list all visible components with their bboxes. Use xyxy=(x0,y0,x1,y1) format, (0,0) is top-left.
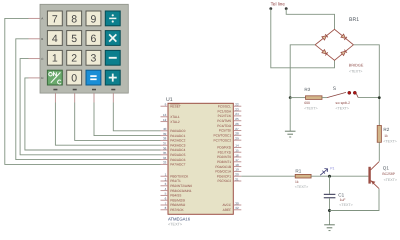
svg-text:PA4/ADC4: PA4/ADC4 xyxy=(170,148,185,152)
svg-text:PC5/TDI: PC5/TDI xyxy=(219,129,231,133)
wire R3 to switch xyxy=(322,97,327,99)
wire Q1 emitter to C1 bottom node xyxy=(330,189,380,211)
svg-text:18: 18 xyxy=(235,163,239,167)
svg-text:PC0/SCL: PC0/SCL xyxy=(218,104,232,108)
junction node at switch right xyxy=(378,96,381,99)
svg-text:PA0/ADC0: PA0/ADC0 xyxy=(170,129,185,133)
wire keypad column 3 to U1 PA1 xyxy=(94,103,161,136)
wire keypad row D to U1 PA4 xyxy=(25,78,161,150)
wire node down to ground xyxy=(289,98,291,131)
svg-text:19: 19 xyxy=(235,168,239,172)
svg-text:1uF: 1uF xyxy=(340,198,346,202)
keypad plus button xyxy=(105,70,120,85)
terminal dot right xyxy=(285,7,288,10)
svg-text:B: B xyxy=(41,37,43,41)
svg-text:24: 24 xyxy=(235,112,239,116)
Q1 collector line xyxy=(371,162,379,170)
svg-text:38: 38 xyxy=(163,137,167,141)
junction node at C1 bottom xyxy=(328,209,331,212)
switch S throw dot xyxy=(353,91,356,94)
svg-text:PA2/ADC2: PA2/ADC2 xyxy=(170,139,185,143)
wire tel-left to bridge bottom xyxy=(271,9,335,68)
svg-text:S: S xyxy=(333,86,337,92)
svg-text:PA1/ADC1: PA1/ADC1 xyxy=(170,134,185,138)
capacitor C1 plates xyxy=(324,194,336,199)
svg-text:PB2/INT2/AIN0: PB2/INT2/AIN0 xyxy=(170,184,192,188)
wire switch to right rail xyxy=(358,97,379,99)
Q1 emitter line xyxy=(371,181,379,189)
svg-text:600: 600 xyxy=(304,101,310,105)
keypad equals button xyxy=(86,70,101,85)
svg-text:PD0/RXD: PD0/RXD xyxy=(217,146,232,150)
svg-text:15: 15 xyxy=(235,149,239,153)
wire C1 bottom xyxy=(329,198,331,224)
svg-text:RESET: RESET xyxy=(170,104,181,108)
resistor R1 body xyxy=(295,174,311,178)
svg-text:1: 1 xyxy=(52,53,58,65)
wire keypad column 4 to U1 PA0 xyxy=(113,103,160,131)
wire U1 PD6 to R1 xyxy=(241,175,295,177)
svg-text:sw spdt-2: sw spdt-2 xyxy=(336,101,351,105)
svg-text:AVCC: AVCC xyxy=(222,203,231,207)
keypad row pin labels A B C D xyxy=(41,17,44,81)
svg-text:40: 40 xyxy=(163,127,167,131)
svg-text:AREF: AREF xyxy=(223,208,232,212)
switch S lever xyxy=(327,92,346,97)
svg-text:R2: R2 xyxy=(383,127,389,132)
svg-text:R3: R3 xyxy=(304,87,310,92)
svg-text:21: 21 xyxy=(235,177,239,181)
keypad multiply button xyxy=(105,31,120,46)
svg-text:28: 28 xyxy=(235,132,239,136)
svg-text:XTAL2: XTAL2 xyxy=(170,120,180,124)
svg-text:PD1/TXD: PD1/TXD xyxy=(218,150,232,154)
svg-text:17: 17 xyxy=(235,158,239,162)
svg-text:PC2/TCK: PC2/TCK xyxy=(218,114,232,118)
ground symbol (C1) xyxy=(324,225,335,231)
svg-text:14: 14 xyxy=(235,144,239,148)
keypad ON/C button xyxy=(47,70,62,85)
voltage probe arrow xyxy=(320,169,327,176)
U1 left pin names xyxy=(170,104,192,212)
svg-text:36: 36 xyxy=(163,146,167,150)
U1 right pin names xyxy=(213,104,232,212)
transistor Q1 base bar xyxy=(368,167,370,184)
svg-text:20: 20 xyxy=(235,173,239,177)
resistor R3 body xyxy=(306,96,323,100)
svg-text:PB5/MOSI: PB5/MOSI xyxy=(170,198,185,202)
microcontroller U1 body xyxy=(168,103,233,214)
svg-text:PD2/INT0: PD2/INT0 xyxy=(217,155,231,159)
svg-text:PC6/TOSC1: PC6/TOSC1 xyxy=(213,134,231,138)
svg-text:PD4/OC1B: PD4/OC1B xyxy=(215,165,231,169)
svg-text:ATMEGA16: ATMEGA16 xyxy=(168,216,191,221)
keypad column pin labels xyxy=(53,89,115,91)
keypad minus button xyxy=(105,50,120,65)
svg-text:PB0/T0/XCK: PB0/T0/XCK xyxy=(170,174,189,178)
svg-text:22: 22 xyxy=(235,103,239,107)
wire bridge-right to R2 xyxy=(353,45,379,126)
svg-text:7: 7 xyxy=(52,13,58,25)
diode D4 (bottom-right) xyxy=(341,51,346,55)
svg-text:PA7/ADC7: PA7/ADC7 xyxy=(170,163,185,167)
svg-text:<TEXT>: <TEXT> xyxy=(383,140,396,144)
svg-text:33: 33 xyxy=(163,161,167,165)
svg-text:PB6/MISO: PB6/MISO xyxy=(170,203,186,207)
svg-text:39: 39 xyxy=(163,132,167,136)
svg-text:37: 37 xyxy=(163,142,167,146)
svg-text:1k: 1k xyxy=(384,134,388,138)
wire node to R3 xyxy=(290,97,305,99)
svg-text:BC258P: BC258P xyxy=(382,172,395,176)
svg-text:16: 16 xyxy=(235,153,239,157)
svg-text:C1: C1 xyxy=(338,192,344,197)
keypad column pin stubs xyxy=(55,93,113,102)
svg-text:PB4/SS: PB4/SS xyxy=(170,194,181,198)
wire R2 to Q1 collector xyxy=(378,142,380,161)
svg-text:0: 0 xyxy=(71,73,77,85)
svg-text:PB3/OC0/AIN1: PB3/OC0/AIN1 xyxy=(170,189,192,193)
wire R1 to Q1 base xyxy=(311,175,368,177)
svg-text:2: 2 xyxy=(71,53,77,65)
svg-text:A: A xyxy=(41,17,43,21)
svg-text:PA6/ADC6: PA6/ADC6 xyxy=(170,158,185,162)
svg-text:BR1: BR1 xyxy=(349,17,359,23)
U1 right pin numbers xyxy=(235,103,239,211)
svg-text:PA3/ADC3: PA3/ADC3 xyxy=(170,143,185,147)
svg-text:3: 3 xyxy=(91,53,97,65)
svg-text:8: 8 xyxy=(71,13,77,25)
svg-text:P1: P1 xyxy=(330,166,334,170)
svg-text:PB7/SCK: PB7/SCK xyxy=(170,208,184,212)
svg-text:XTAL1: XTAL1 xyxy=(170,115,180,119)
wire tel-right to bridge top xyxy=(286,9,334,30)
U1 right pin stubs xyxy=(233,106,241,210)
svg-text:35: 35 xyxy=(163,151,167,155)
svg-text:4: 4 xyxy=(52,33,58,45)
svg-text:5: 5 xyxy=(71,33,77,45)
diode D1 (left-top) xyxy=(322,36,327,40)
keypad number buttons xyxy=(47,11,101,85)
svg-text:9: 9 xyxy=(91,13,97,25)
wire bridge-left to node xyxy=(290,45,315,98)
switch S pole dot xyxy=(348,91,351,94)
svg-text:Tel line: Tel line xyxy=(271,1,286,6)
svg-text:1k: 1k xyxy=(295,180,299,184)
keypad row pin stubs xyxy=(29,18,41,78)
U1 left pin stubs xyxy=(161,106,169,210)
junction node at R3 left xyxy=(289,96,292,99)
svg-text:23: 23 xyxy=(235,107,239,111)
svg-text:BRIDGE: BRIDGE xyxy=(349,64,364,68)
wire C1 top xyxy=(329,176,331,194)
svg-text:<TEXT>: <TEXT> xyxy=(336,106,349,110)
svg-text:29: 29 xyxy=(235,136,239,140)
svg-text:U1: U1 xyxy=(166,97,173,103)
svg-text:27: 27 xyxy=(235,127,239,131)
terminal dot left xyxy=(269,7,272,10)
svg-text:30: 30 xyxy=(235,201,239,205)
bridge BR1 diamond xyxy=(315,29,353,60)
wire keypad column 1 to U1 PA3 xyxy=(55,103,160,146)
svg-text:PD5/OC1A: PD5/OC1A xyxy=(215,170,232,174)
svg-text:PD3/INT1: PD3/INT1 xyxy=(217,160,231,164)
svg-text:34: 34 xyxy=(163,156,167,160)
wire keypad row A to U1 PA7 xyxy=(5,18,161,164)
svg-text:PC3/TMS: PC3/TMS xyxy=(217,119,231,123)
resistor R2 body xyxy=(377,126,381,143)
switch S right link xyxy=(356,93,358,97)
wire keypad column 2 to U1 PA2 xyxy=(75,103,161,141)
diode D2 (top-right) xyxy=(341,34,346,38)
svg-text:PA5/ADC5: PA5/ADC5 xyxy=(170,153,185,157)
svg-text:<TEXT>: <TEXT> xyxy=(339,203,352,207)
svg-text:6: 6 xyxy=(91,33,97,45)
svg-text:Q1: Q1 xyxy=(383,165,390,170)
svg-text:25: 25 xyxy=(235,117,239,121)
svg-text:PC7/TOSC2: PC7/TOSC2 xyxy=(213,138,231,142)
svg-text:<TEXT>: <TEXT> xyxy=(168,223,183,227)
svg-text:26: 26 xyxy=(235,122,239,126)
svg-text:13: 13 xyxy=(163,113,167,117)
keypad KP1 body xyxy=(40,4,128,93)
wire keypad row B to U1 PA6 xyxy=(16,39,161,160)
svg-text:32: 32 xyxy=(235,206,239,210)
U1 left pin numbers xyxy=(163,103,167,211)
svg-text:<TEXT>: <TEXT> xyxy=(349,70,362,74)
svg-text:12: 12 xyxy=(163,118,167,122)
ground symbol (bridge side) xyxy=(285,131,296,137)
wire keypad row C to U1 PA5 xyxy=(20,59,160,155)
junction node at C1 top xyxy=(328,175,331,178)
svg-text:<TEXT>: <TEXT> xyxy=(304,106,317,110)
diode D3 (left-bottom) xyxy=(322,50,327,54)
svg-text:PC4/TDO: PC4/TDO xyxy=(217,124,231,128)
svg-text:<TEXT>: <TEXT> xyxy=(384,178,397,182)
svg-text:R1: R1 xyxy=(295,169,301,174)
keypad divide button xyxy=(105,11,120,26)
svg-text:PB1/T1: PB1/T1 xyxy=(170,179,181,183)
svg-text:PD6/ICP1: PD6/ICP1 xyxy=(217,174,231,178)
svg-text:PD7/OC2: PD7/OC2 xyxy=(217,179,231,183)
svg-text:<TEXT>: <TEXT> xyxy=(295,185,308,189)
svg-text:PC1/SDA: PC1/SDA xyxy=(217,109,232,113)
